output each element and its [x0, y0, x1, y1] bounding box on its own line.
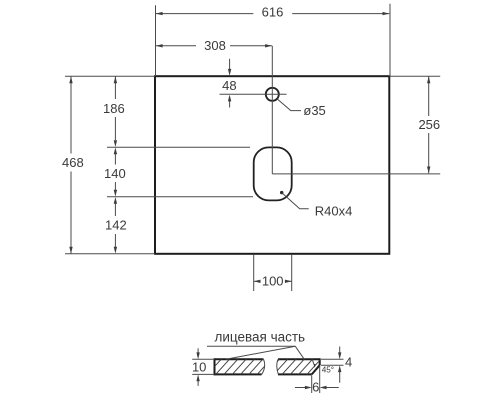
svg-text:616: 616	[262, 5, 284, 20]
svg-text:48: 48	[222, 78, 236, 93]
dim 6	[311, 375, 313, 393]
countertop outline	[155, 76, 389, 254]
svg-text:R40x4: R40x4	[315, 203, 353, 218]
svg-text:4: 4	[345, 355, 352, 370]
dim 616	[155, 5, 157, 76]
svg-text:308: 308	[204, 38, 226, 53]
svg-text:45°: 45°	[322, 366, 334, 375]
svg-text:6: 6	[312, 379, 319, 394]
svg-text:10: 10	[192, 360, 206, 375]
drain cutout R40	[254, 147, 292, 200]
dim 308	[156, 45, 196, 47]
svg-text:ø35: ø35	[303, 103, 325, 118]
dim 4	[321, 358, 344, 360]
dim 468	[65, 75, 155, 77]
dim 48	[229, 59, 231, 70]
dim chain 186 140 142	[107, 146, 250, 148]
section bar right piece	[278, 358, 320, 360]
label R40x4	[280, 191, 283, 194]
svg-text:142: 142	[105, 218, 127, 233]
svg-text:100: 100	[262, 273, 284, 288]
svg-text:256: 256	[418, 117, 440, 132]
dim 256	[389, 75, 440, 77]
label 45deg	[313, 360, 315, 364]
svg-text:186: 186	[103, 101, 125, 116]
faucet hole	[266, 88, 279, 101]
dim 10	[192, 358, 214, 360]
svg-text:140: 140	[104, 166, 126, 181]
dim 100	[253, 255, 255, 291]
svg-text:468: 468	[62, 155, 84, 170]
label dia 35	[277, 99, 301, 111]
section bar left piece	[215, 358, 264, 360]
svg-text:лицевая часть: лицевая часть	[214, 329, 305, 344]
centerlines	[271, 46, 273, 174]
